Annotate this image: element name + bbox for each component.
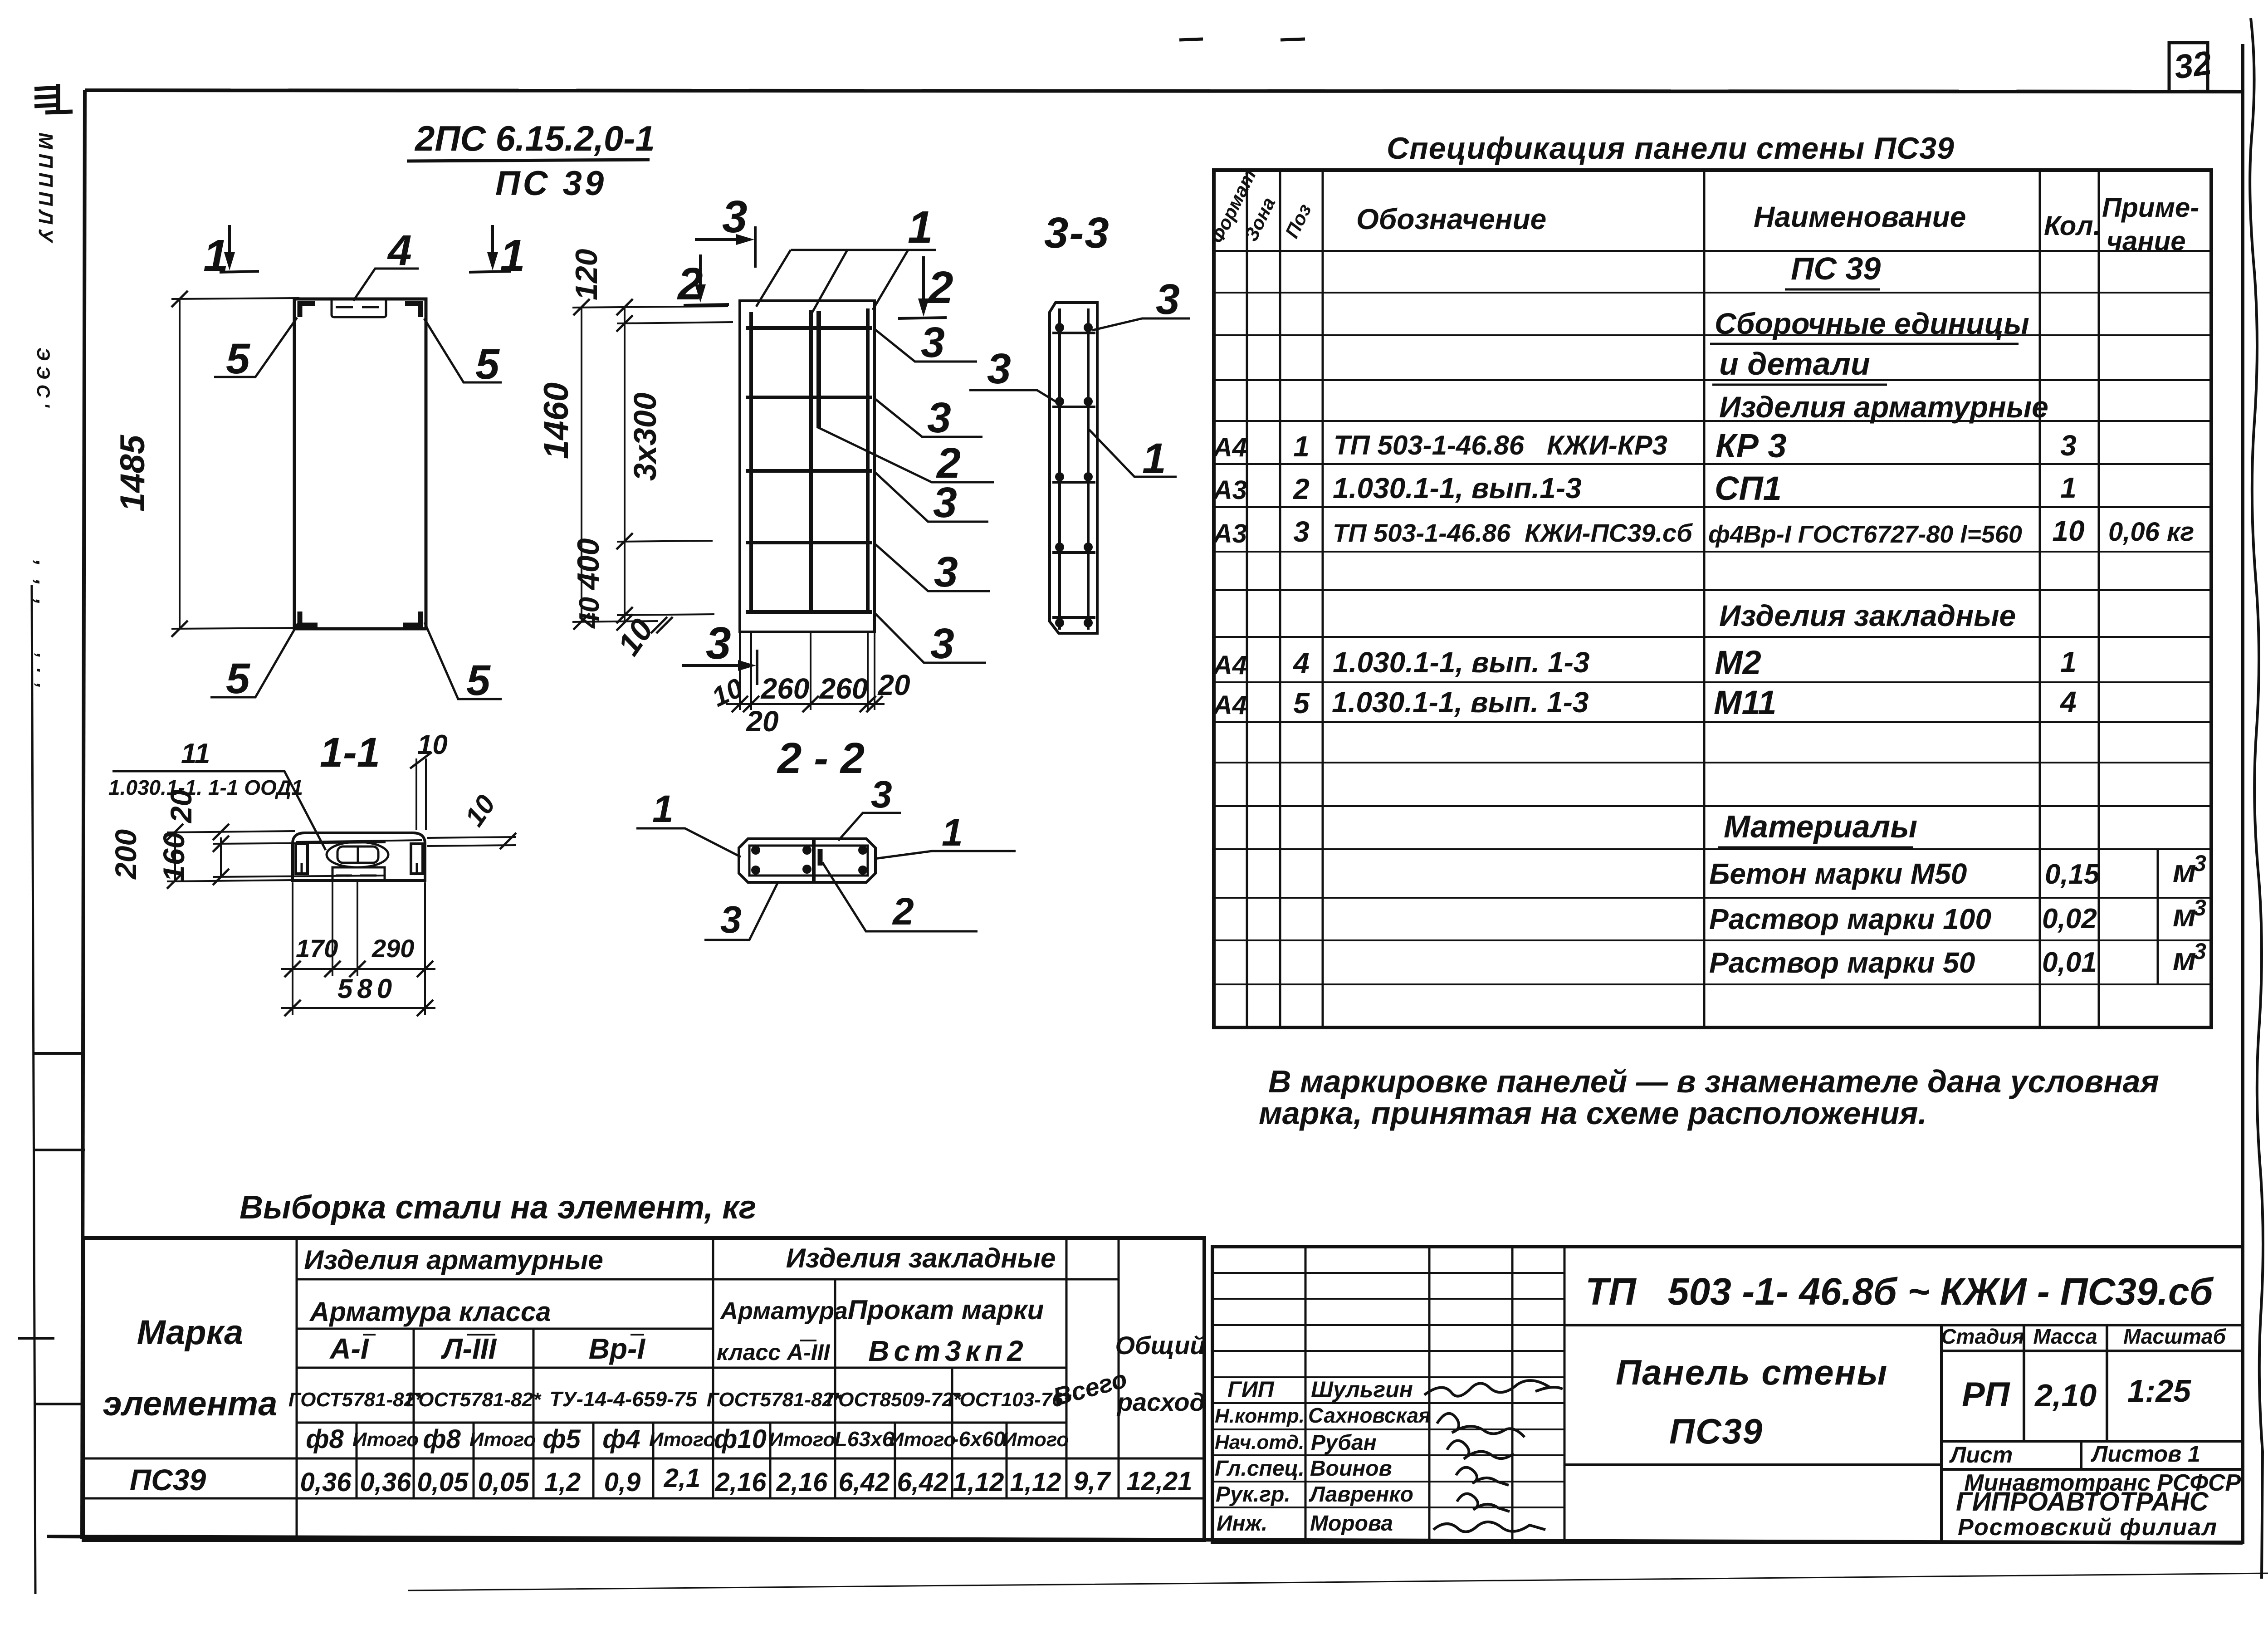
section 1-1 body: [293, 833, 425, 881]
dim 200 ticks: [167, 824, 183, 840]
svg-text:А3: А3: [1212, 475, 1247, 505]
svg-text:Шульгин: Шульгин: [1311, 1377, 1413, 1402]
svg-text:3: 3: [2194, 895, 2206, 920]
section 2-2 middle bar: [812, 840, 816, 881]
svg-text:0,36: 0,36: [300, 1468, 352, 1497]
section mark 3 top arrow: [695, 226, 755, 268]
svg-text:4: 4: [1292, 647, 1310, 680]
svg-text:0,01: 0,01: [2042, 947, 2097, 978]
title block signature rows: [1212, 1273, 1564, 1507]
svg-text:Ростовский филиал: Ростовский филиал: [1958, 1514, 2218, 1541]
svg-text:1.030.1-1, вып. 1-3: 1.030.1-1, вып. 1-3: [1332, 686, 1589, 719]
lifting notch dashed line: [336, 306, 382, 308]
svg-text:Материалы: Материалы: [1724, 809, 1917, 844]
dim 160 ticks: [213, 836, 229, 852]
svg-text:расход: расход: [1116, 1388, 1205, 1416]
corner plate mark bottom-right: [403, 612, 420, 625]
svg-text:3-3: 3-3: [1044, 209, 1110, 257]
title block outer border: [1212, 1247, 2243, 1542]
svg-text:2,16: 2,16: [715, 1468, 767, 1497]
svg-text:Общий: Общий: [1115, 1331, 1205, 1360]
dimension 1485 tick bottom: [171, 621, 188, 637]
section 2-2 rebar dots: [751, 846, 867, 875]
svg-text:Итого: Итого: [769, 1429, 835, 1451]
svg-text:1,12: 1,12: [953, 1468, 1004, 1497]
svg-text:4: 4: [387, 226, 412, 274]
svg-text:3: 3: [2194, 939, 2206, 964]
svg-text:Вст3кп2: Вст3кп2: [868, 1335, 1027, 1367]
label 3 left leader: [969, 390, 1058, 403]
section 1-1 under pocket dashed line: [336, 875, 381, 877]
svg-text:3: 3: [1156, 275, 1180, 323]
svg-text:Марка: Марка: [137, 1313, 244, 1352]
svg-text:ГОСТ5781-82*: ГОСТ5781-82*: [707, 1389, 842, 1411]
section 3-3 cross bar 5: [1052, 616, 1095, 619]
svg-text:Лавренко: Лавренко: [1309, 1482, 1413, 1507]
svg-text:Масштаб: Масштаб: [2123, 1325, 2226, 1348]
svg-text:Изделия арматурные: Изделия арматурные: [1719, 390, 2048, 424]
horizontal bar 5 (pos 3): [746, 610, 872, 614]
right label 3 level2 leader: [875, 399, 982, 437]
svg-text:Итого: Итого: [890, 1429, 956, 1451]
signature 2: [1437, 1414, 1525, 1437]
svg-text:1: 1: [908, 202, 933, 253]
svg-text:3: 3: [722, 191, 748, 242]
svg-text:3: 3: [987, 345, 1011, 393]
section mark 1 left arrow: [220, 225, 259, 272]
signature 6: [1433, 1522, 1545, 1532]
svg-text:10: 10: [707, 672, 748, 713]
svg-text:12,21: 12,21: [1126, 1467, 1192, 1496]
svg-text:Арматура класса: Арматура класса: [309, 1296, 551, 1327]
svg-text:ТУ-14-4-659-75: ТУ-14-4-659-75: [549, 1387, 698, 1411]
section 3-3 cross bar 2: [1052, 406, 1095, 408]
svg-text:ф8: ф8: [423, 1424, 461, 1454]
scan paper edge right: [2250, 18, 2263, 1579]
label 1 right leader: [875, 851, 1016, 859]
svg-text:1460: 1460: [537, 382, 576, 459]
svg-text:Спецификация панели стены ПС39: Спецификация панели стены ПС39: [1387, 131, 1955, 166]
dim 10 right lines: [427, 837, 516, 838]
svg-text:1: 1: [1293, 430, 1310, 463]
svg-text:Наименование: Наименование: [1754, 201, 1966, 233]
svg-text:20: 20: [164, 789, 198, 824]
section 3-3 cross bar 3: [1052, 481, 1095, 484]
fold tick 2: [33, 1149, 85, 1151]
svg-text:1.030.1-1, вып.1-3: 1.030.1-1, вып.1-3: [1333, 472, 1582, 504]
svg-text:2 - 2: 2 - 2: [777, 734, 865, 783]
svg-text:Прокат марки: Прокат марки: [848, 1295, 1044, 1325]
svg-text:элемента: элемента: [103, 1384, 278, 1423]
svg-text:0,05: 0,05: [417, 1468, 469, 1497]
svg-text:РП: РП: [1962, 1375, 2010, 1414]
svg-text:3: 3: [706, 618, 731, 669]
label 1 leaders: [756, 250, 936, 312]
svg-text:Сборочные единицы: Сборочные единицы: [1715, 307, 2029, 340]
fraction bar: [407, 160, 650, 161]
svg-text:1: 1: [500, 230, 525, 281]
title block right structure: [1564, 1325, 2243, 1542]
svg-text:-6x60: -6x60: [952, 1427, 1005, 1451]
svg-text:,.,: ,.,: [33, 653, 53, 698]
section 2-2 SP1 mark: [818, 849, 823, 866]
svg-text:ГОСТ5781-82*: ГОСТ5781-82*: [406, 1389, 542, 1411]
section mark 1 right arrow: [469, 225, 511, 272]
svg-text:Масса: Масса: [2033, 1325, 2097, 1348]
connecting element SP1 (pos 2): [816, 311, 821, 428]
section 1-1 right plate tick: [416, 863, 418, 874]
section 3-3 cross bar 4: [1052, 551, 1095, 554]
svg-text:2,16: 2,16: [776, 1468, 828, 1497]
bottom dim ticks: [732, 696, 883, 712]
svg-text:0,15: 0,15: [2045, 859, 2100, 890]
svg-text:170: 170: [296, 934, 338, 963]
bottom dim line: [726, 703, 885, 705]
section 3-3 cross bar 1: [1052, 332, 1095, 334]
section 1-1 top face line: [296, 840, 422, 842]
svg-text:0,06 кг: 0,06 кг: [2108, 517, 2194, 547]
panel front view outline: [294, 299, 426, 629]
svg-text:Обозначение: Обозначение: [1356, 203, 1546, 235]
label 5 top-right leader: [424, 318, 502, 382]
dim 10 right tick: [500, 833, 516, 849]
label 3 bottom leader: [704, 883, 777, 940]
signature 1: [1424, 1380, 1563, 1396]
section 1-1 inner slot: [337, 846, 378, 863]
svg-text:ГИПРОАВТОТРАНС: ГИПРОАВТОТРАНС: [1956, 1487, 2209, 1517]
svg-text:ф4Вр-I ГОСТ6727-80 l=560: ф4Вр-I ГОСТ6727-80 l=560: [1708, 521, 2022, 548]
corner plate mark top-right: [405, 303, 420, 317]
svg-text:580: 580: [337, 974, 396, 1004]
svg-text:20: 20: [746, 705, 778, 738]
label 3 leader: [1092, 318, 1190, 330]
section 1-1 central oval: [327, 842, 388, 867]
svg-text:КР 3: КР 3: [1716, 427, 1787, 465]
sheet frame top line: [85, 90, 2243, 92]
svg-text:ф10: ф10: [714, 1424, 767, 1454]
signature 5: [1457, 1494, 1510, 1512]
svg-text:ТП 503-1-46.86 КЖИ-КР3: ТП 503-1-46.86 КЖИ-КР3: [1334, 430, 1667, 460]
svg-text:МПППЛУ: МПППЛУ: [34, 132, 57, 247]
svg-text:2: 2: [677, 259, 703, 309]
svg-text:Изделия закладные: Изделия закладные: [786, 1243, 1056, 1273]
dim 20 tick pair: [213, 824, 229, 840]
dim 170/290 ticks: [284, 961, 433, 977]
svg-text:1,2: 1,2: [544, 1468, 581, 1497]
svg-text:М11: М11: [1714, 684, 1776, 721]
section 1-1 right plate M11: [411, 844, 423, 874]
label 5 bottom-right leader: [425, 622, 502, 699]
svg-text:М2: М2: [1715, 644, 1761, 681]
svg-text:3: 3: [930, 620, 954, 668]
horizontal bar 1 (pos 3): [746, 326, 872, 330]
left margin fold mark: [34, 84, 73, 113]
vertical rebar right (pos 1): [866, 308, 870, 614]
svg-text:Кол.: Кол.: [2044, 210, 2101, 241]
svg-text:А3: А3: [1212, 519, 1247, 548]
svg-text:Выборка стали на элемент, кг: Выборка стали на элемент, кг: [240, 1189, 756, 1226]
dim 160 line: [220, 837, 222, 877]
dim 580 ticks: [284, 1000, 433, 1016]
section mark 2 right arrow: [898, 256, 947, 318]
registration dash top 2: [1281, 39, 1305, 40]
svg-text:20: 20: [877, 669, 910, 701]
svg-text:ПС 39: ПС 39: [495, 164, 606, 203]
svg-text:0,36: 0,36: [360, 1468, 412, 1497]
svg-text:класс А-III: класс А-III: [717, 1340, 831, 1365]
bottom extension lines: [740, 632, 875, 710]
extension line 120: [617, 322, 733, 323]
svg-text:Н.контр.: Н.контр.: [1215, 1405, 1305, 1427]
section 2-2 body: [739, 839, 875, 882]
page number box: [2169, 43, 2208, 92]
svg-text:В маркировке панелей — в знаме: В маркировке панелей — в знаменателе дан…: [1268, 1064, 2159, 1099]
svg-text:1: 1: [203, 230, 229, 281]
svg-text:3: 3: [871, 773, 892, 816]
svg-text:ф8: ф8: [306, 1424, 344, 1454]
dim ticks left chains: [573, 299, 673, 633]
label 4 leader: [353, 269, 419, 301]
svg-text:2,10: 2,10: [2034, 1378, 2097, 1413]
bottom extension lines: [293, 881, 425, 1015]
svg-text:ГОСТ5781-82*: ГОСТ5781-82*: [288, 1389, 424, 1411]
fold tick 3: [18, 1337, 54, 1340]
svg-text:Листов 1: Листов 1: [2091, 1441, 2200, 1467]
svg-text:ф4: ф4: [602, 1424, 640, 1454]
svg-text:3: 3: [921, 318, 945, 367]
signature 4: [1456, 1468, 1509, 1485]
svg-text:Приме-: Приме-: [2102, 192, 2199, 223]
svg-text:290: 290: [371, 934, 414, 963]
section 2-2 rebar frame: [749, 846, 868, 876]
svg-text:2: 2: [892, 890, 914, 933]
scan streak bottom: [408, 1573, 2268, 1590]
svg-text:3: 3: [720, 898, 742, 941]
right label 3 level5 leader: [875, 614, 986, 663]
svg-text:3: 3: [933, 479, 957, 527]
right label 3 level3 leader: [875, 473, 988, 522]
svg-text:200: 200: [109, 829, 142, 880]
dim 200 extensions: [167, 831, 295, 832]
svg-text:5: 5: [475, 340, 500, 388]
svg-text:м: м: [2173, 898, 2196, 933]
svg-text:м: м: [2173, 853, 2196, 889]
svg-text:чание: чание: [2107, 226, 2186, 256]
svg-text:40: 40: [574, 597, 605, 629]
svg-text:ТП 503-1-46.86 КЖИ-ПС39.сб: ТП 503-1-46.86 КЖИ-ПС39.сб: [1333, 519, 1693, 547]
svg-text:2: 2: [927, 262, 953, 313]
label 2 leader: [822, 862, 978, 931]
svg-text:Итого: Итого: [1002, 1429, 1069, 1451]
svg-text:Арматура: Арматура: [719, 1297, 848, 1325]
svg-text:СП1: СП1: [1715, 470, 1782, 507]
section 3-3 left rebar: [1058, 308, 1061, 630]
svg-text:Итого: Итого: [469, 1429, 536, 1451]
sheet frame left line: [82, 90, 85, 1539]
svg-text:Воинов: Воинов: [1310, 1457, 1392, 1481]
svg-text:Поз: Поз: [1281, 201, 1315, 241]
section 3-3 outline: [1050, 303, 1097, 633]
svg-text:10: 10: [417, 729, 448, 760]
svg-text:Лист: Лист: [1949, 1442, 2013, 1468]
svg-text:Инж.: Инж.: [1217, 1512, 1267, 1536]
svg-text:5: 5: [1293, 687, 1310, 719]
title block verticals signatures: [1305, 1247, 1564, 1542]
svg-text:5: 5: [466, 656, 491, 704]
spec table verticals: [1247, 170, 2158, 1027]
svg-text:Бетон марки М50: Бетон марки М50: [1709, 857, 1967, 890]
svg-text:и детали: и детали: [1719, 346, 1870, 382]
steel table outer border: [83, 1238, 1204, 1540]
dimension 1485 extension top: [171, 298, 299, 299]
svg-text:11: 11: [181, 738, 210, 769]
sheet frame bottom line: [47, 1536, 2243, 1543]
svg-text:Изделия закладные: Изделия закладные: [1719, 599, 2016, 632]
svg-text:ПС39: ПС39: [1669, 1411, 1763, 1451]
section 3-3 right rebar: [1087, 308, 1090, 630]
section 1-1 left plate M11: [296, 844, 308, 874]
extension line bottom (40): [572, 621, 658, 622]
label 5 top-left leader: [214, 318, 297, 377]
svg-text:3: 3: [2060, 429, 2077, 462]
dimension 1485 line: [179, 299, 181, 629]
signature 3: [1447, 1441, 1514, 1459]
label 1 left leader: [636, 828, 741, 857]
svg-text:Стадия: Стадия: [1941, 1325, 2024, 1348]
svg-text:120: 120: [569, 249, 604, 300]
svg-text:0,05: 0,05: [478, 1468, 530, 1497]
label 5 bottom-left leader: [210, 623, 298, 697]
svg-text:1: 1: [2060, 471, 2077, 504]
dim line 580: [281, 1007, 435, 1009]
svg-text:3: 3: [2194, 851, 2206, 876]
svg-text:Рубан: Рубан: [1311, 1431, 1377, 1455]
right label 2 leader: [818, 427, 994, 482]
label line and leader to oval: [112, 771, 326, 850]
svg-text:1-1: 1-1: [320, 729, 380, 776]
dim line 170/290: [281, 968, 435, 970]
dimension 1485 extension bottom: [171, 628, 299, 629]
svg-text:ГИП: ГИП: [1227, 1377, 1275, 1402]
svg-text:5: 5: [226, 335, 250, 383]
svg-text:6,42: 6,42: [839, 1468, 890, 1497]
horizontal bar 4 (pos 3): [746, 541, 872, 544]
section 1-1 under pocket: [332, 867, 385, 880]
svg-text:А-I: А-I: [329, 1332, 369, 1365]
svg-text:ГОСТ8509-72*: ГОСТ8509-72*: [826, 1389, 962, 1411]
svg-text:1: 1: [1142, 435, 1166, 483]
extension line 3x300 bottom: [617, 541, 713, 542]
right label 3 level1 leader: [875, 330, 977, 362]
svg-text:Морова: Морова: [1310, 1512, 1393, 1536]
steel table verticals: [297, 1238, 1119, 1540]
svg-text:А4: А4: [1212, 651, 1247, 680]
registration dash top 1: [1179, 39, 1203, 40]
svg-text:0,9: 0,9: [604, 1468, 641, 1497]
svg-text:Рук.гр.: Рук.гр.: [1216, 1482, 1290, 1507]
svg-text:Раствор марки 100: Раствор марки 100: [1709, 903, 1991, 935]
left dim 1460 line: [581, 307, 582, 621]
steel table horizontals: [83, 1279, 1204, 1498]
section 3-3 rebar dots: [1055, 323, 1093, 627]
svg-text:160: 160: [157, 832, 191, 882]
corner plate mark bottom-left: [300, 612, 318, 625]
svg-text:32: 32: [2172, 44, 2214, 86]
horizontal bar 2 (pos 3): [746, 396, 872, 399]
svg-text:марка, принятая на схеме распо: марка, принятая на схеме расположения.: [1259, 1096, 1927, 1131]
svg-text:Панель стены: Панель стены: [1616, 1352, 1888, 1392]
svg-text:Раствор марки 50: Раствор марки 50: [1709, 946, 1975, 979]
svg-text:ПС39: ПС39: [130, 1463, 206, 1497]
vertical rebar middle: [809, 310, 813, 614]
extension line top: [572, 306, 728, 308]
svg-text:10: 10: [459, 789, 501, 832]
svg-text:Нач.отд.: Нач.отд.: [1215, 1431, 1304, 1453]
extension line 400 bottom: [617, 614, 714, 615]
svg-text:1.030.1-1. 1-1 ООД1: 1.030.1-1. 1-1 ООД1: [108, 776, 303, 799]
svg-text:3x300: 3x300: [627, 392, 663, 481]
svg-text:Л-III: Л-III: [441, 1332, 497, 1365]
svg-text:ф5: ф5: [543, 1424, 581, 1454]
right label 3 level4 leader: [875, 544, 990, 591]
svg-text:400: 400: [571, 538, 606, 591]
svg-text:260: 260: [819, 672, 868, 705]
svg-text:м: м: [2173, 941, 2196, 977]
section 1-1 left plate tick: [301, 863, 303, 874]
svg-text:1.030.1-1, вып. 1-3: 1.030.1-1, вып. 1-3: [1333, 646, 1589, 679]
fold tick 1: [33, 1052, 85, 1055]
label 3 top leader: [838, 813, 901, 841]
spec table horizontals: [1214, 251, 2211, 984]
sheet frame right line: [2241, 44, 2244, 1543]
scan fold line left: [32, 585, 35, 1594]
corner plate mark top-left: [300, 303, 315, 317]
dimension 1485 tick top: [171, 291, 188, 307]
svg-text:А4: А4: [1212, 433, 1247, 462]
svg-text:А4: А4: [1212, 690, 1247, 720]
svg-text:Изделия арматурные: Изделия арматурные: [304, 1245, 603, 1275]
svg-text:0,02: 0,02: [2042, 903, 2097, 934]
svg-text:3: 3: [927, 394, 951, 442]
svg-text:10: 10: [611, 612, 660, 662]
reinforcement view panel outline: [740, 301, 875, 632]
svg-text:ТП 503 -1- 46.8б ~ КЖИ - ПС3: ТП 503 -1- 46.8б ~ КЖИ - ПС39.сб: [1585, 1270, 2214, 1313]
dim 200 line: [174, 832, 176, 881]
section 1-1 slot divider: [357, 846, 359, 863]
svg-text:2,1: 2,1: [664, 1463, 701, 1493]
fold tick 4: [34, 1403, 82, 1405]
svg-text:1:25: 1:25: [2127, 1373, 2191, 1409]
dim 10 top-right lines: [415, 758, 417, 830]
svg-text:10: 10: [2052, 514, 2084, 547]
svg-text:ПС 39: ПС 39: [1791, 251, 1881, 286]
svg-text:Сахновская: Сахновская: [1308, 1404, 1431, 1427]
svg-text:260: 260: [761, 672, 810, 705]
svg-text:2: 2: [1293, 473, 1310, 505]
svg-text:1: 1: [2060, 646, 2077, 678]
svg-text:1485: 1485: [113, 434, 152, 512]
section mark 2 left arrow: [684, 254, 729, 305]
svg-text:Итого: Итого: [352, 1429, 419, 1451]
svg-text:2ПС 6.15.2,0-1: 2ПС 6.15.2,0-1: [414, 118, 655, 158]
svg-text:5: 5: [226, 655, 250, 703]
svg-text:Вр-I: Вр-I: [589, 1332, 646, 1365]
svg-text:1: 1: [652, 788, 674, 830]
horizontal bar 3 (pos 3): [746, 469, 872, 473]
svg-text:6,42: 6,42: [897, 1468, 948, 1497]
svg-text:3: 3: [934, 548, 958, 596]
svg-text:Гл.спец.: Гл.спец.: [1215, 1457, 1305, 1481]
